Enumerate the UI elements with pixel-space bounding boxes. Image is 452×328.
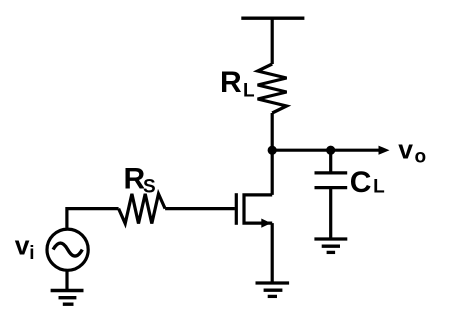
wire output node to vo arrow bbox=[272, 149, 380, 152]
ground under source vi bbox=[51, 291, 84, 305]
wire source bottom to ground bbox=[65, 271, 68, 291]
ground under CL bbox=[314, 239, 347, 252]
wire node to CL top plate bbox=[329, 150, 332, 173]
capacitor CL top plate bbox=[315, 171, 348, 174]
wire RS left to source top bbox=[67, 209, 119, 228]
wire CL bottom plate to ground bbox=[329, 188, 332, 239]
node drain junction dot bbox=[268, 146, 277, 155]
transistor M1 gate bar bbox=[235, 193, 238, 225]
wire RL bottom to drain (through output node) bbox=[271, 113, 274, 195]
svg-text:L: L bbox=[373, 177, 385, 198]
power rail VDD bbox=[241, 17, 304, 20]
svg-text:L: L bbox=[243, 81, 255, 102]
wire source to ground bbox=[271, 223, 274, 283]
svg-text:v: v bbox=[15, 230, 30, 260]
svg-text:i: i bbox=[29, 243, 34, 264]
resistor RS bbox=[119, 194, 166, 224]
voltage source sine wave bbox=[53, 243, 82, 256]
transistor M1 body (drain-channel-source bracket) bbox=[244, 195, 272, 223]
svg-text:S: S bbox=[143, 177, 156, 198]
svg-text:v: v bbox=[398, 135, 413, 165]
voltage source vi circle bbox=[47, 229, 88, 270]
resistor RL bbox=[258, 64, 287, 113]
capacitor CL bottom plate bbox=[315, 186, 348, 189]
svg-text:R: R bbox=[220, 66, 242, 99]
ground under transistor source bbox=[256, 283, 290, 296]
svg-text:o: o bbox=[415, 146, 427, 167]
node CL junction dot bbox=[326, 146, 335, 155]
wire RS right to gate bbox=[165, 207, 235, 210]
svg-text:C: C bbox=[350, 166, 372, 199]
transistor source arrowhead bbox=[261, 219, 271, 228]
vo arrowhead bbox=[379, 146, 390, 155]
wire VDD rail to RL top bbox=[271, 18, 274, 64]
